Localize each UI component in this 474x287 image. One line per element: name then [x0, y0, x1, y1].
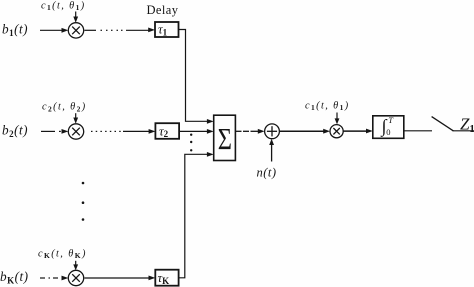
wire tau2 to sum [179, 130, 207, 132]
wire output Z1 [453, 130, 474, 132]
svg-text:b1(t): b1(t) [2, 21, 28, 38]
integrator box [373, 116, 404, 139]
svg-text:n(t): n(t) [257, 165, 277, 179]
delay box tau2 [155, 123, 179, 139]
wire c2 down arrow [75, 113, 77, 119]
wire adder to multiplier [280, 130, 325, 132]
svg-text:Σ: Σ [218, 121, 232, 155]
svg-text:b2(t): b2(t) [2, 123, 28, 140]
svg-text:cK(t, θK): cK(t, θK) [38, 249, 87, 261]
summer box Sigma [214, 115, 236, 160]
multiplier right [330, 125, 343, 138]
wire row2 dotted continuation [91, 130, 150, 132]
vertical ellipsis at summer inputs [190, 134, 192, 152]
svg-text:c2(t, θ2): c2(t, θ2) [42, 102, 87, 114]
wire c1 down arrow [75, 12, 77, 19]
wire tau1 to sum [179, 30, 209, 122]
adder circle [265, 124, 280, 139]
wire cK down arrow [75, 261, 77, 267]
multiplier rowK [68, 270, 83, 285]
wire tauK to sum [179, 154, 208, 277]
svg-text:c1(t, θ1): c1(t, θ1) [305, 101, 350, 113]
svg-text:0: 0 [386, 127, 390, 137]
wire row1 dashed continuation [85, 29, 150, 31]
wire integrator out [404, 130, 432, 132]
multiplier row1 [68, 23, 83, 38]
wire c1 right down arrow [336, 113, 338, 120]
sampling switch [432, 117, 454, 131]
wire multiplier to integrator [343, 130, 367, 132]
svg-text:Delay: Delay [147, 3, 179, 17]
wire sum to adder [235, 130, 259, 132]
wire rowK to tauK [85, 277, 150, 279]
svg-text:bK(t): bK(t) [0, 269, 29, 286]
delay box tauK [155, 270, 178, 286]
wire n(t) up arrow [271, 144, 273, 162]
multiplier row2 [68, 124, 83, 139]
wire bK input dashes [40, 277, 58, 279]
wire b2 input dash-dot [41, 130, 61, 132]
delay box tau1 [155, 22, 179, 37]
svg-text:c1(t, θ1): c1(t, θ1) [41, 1, 86, 13]
wire b1 input [40, 29, 63, 31]
vertical ellipsis between rows [82, 182, 85, 221]
